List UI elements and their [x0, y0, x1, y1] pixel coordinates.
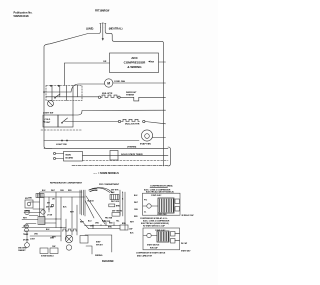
terminal box TB1 — [25, 198, 33, 208]
defrost thermostat S1 — [133, 97, 140, 101]
svg-text:MULLION HTR: MULLION HTR — [125, 124, 140, 126]
main harness verticals — [80, 190, 85, 216]
svg-text:ADC: ADC — [131, 56, 138, 60]
captions between boxes — [140, 217, 170, 228]
wire row y121 mullion — [65, 119, 166, 124]
wire diagonal harness 2 — [86, 196, 105, 224]
power cord plug P1 — [100, 23, 106, 28]
svg-text:FRZ COMPARTMENT: FRZ COMPARTMENT — [99, 183, 120, 186]
svg-text:BRN: BRN — [108, 226, 112, 228]
svg-text:SW: SW — [47, 202, 50, 204]
text rows under stack — [104, 217, 113, 223]
overload box 1 — [175, 207, 180, 212]
svg-text:WIRING: WIRING — [95, 255, 103, 257]
svg-text:(THERM): (THERM) — [127, 146, 137, 148]
wire to ADC box left — [65, 62, 110, 64]
text block lower middle — [96, 241, 104, 247]
svg-text:-··-· = SOME MODELS: -··-· = SOME MODELS — [93, 172, 119, 175]
mid cluster specks — [47, 198, 75, 213]
svg-text:LIGHT SW: LIGHT SW — [56, 144, 68, 146]
svg-text:MUL WTR: MUL WTR — [102, 93, 113, 95]
svg-text:AND CAPACITOR: AND CAPACITOR — [137, 255, 153, 258]
wire row y110 — [73, 110, 166, 115]
relay K1 (hatched) — [38, 217, 45, 225]
svg-text:DEF HTR: DEF HTR — [111, 189, 119, 191]
junction box on bundle — [36, 194, 44, 198]
tick marks row y222 — [93, 222, 114, 229]
ADC control box U1 — [110, 53, 159, 73]
svg-text:MAIN: MAIN — [66, 154, 72, 157]
wire row y148 — [44, 147, 168, 149]
door heater box — [110, 151, 118, 161]
svg-text:1: 1 — [122, 192, 123, 194]
wire row in assembly — [44, 91, 71, 93]
run capacitor box 1 — [175, 199, 180, 204]
text left of motor — [52, 236, 56, 247]
svg-text:ORG: ORG — [34, 234, 39, 236]
labels in box 1 — [144, 200, 148, 214]
text block bottom-left — [18, 248, 27, 253]
svg-text:RED: RED — [134, 216, 138, 218]
wire ADC box right lead — [159, 61, 166, 63]
ground prong arrow — [102, 28, 104, 41]
switch box U4 — [58, 115, 73, 127]
svg-text:5995210198: 5995210198 — [14, 14, 29, 18]
caption: elec conn box1 — [144, 189, 174, 193]
svg-text:CONT: CONT — [45, 122, 51, 124]
svg-text:WHT: WHT — [130, 221, 135, 223]
freezer connector box 1 — [110, 195, 119, 200]
svg-text:(LINE): (LINE) — [86, 28, 94, 31]
svg-text:DR SW: DR SW — [23, 240, 29, 242]
label lower-left — [23, 240, 29, 242]
junction dots — [48, 208, 66, 231]
svg-text:CAP: CAP — [52, 245, 56, 248]
wire: neutral conductor to right bus — [105, 28, 163, 167]
component right mid — [120, 225, 133, 230]
evaporator fan motor M2 — [141, 130, 165, 141]
svg-text:SW: SW — [25, 198, 28, 200]
defrost timer bracket — [168, 147, 171, 166]
svg-text:COND. FAN: COND. FAN — [114, 80, 126, 83]
svg-text:OVERLOAD: OVERLOAD — [157, 213, 167, 216]
freezer right column marks — [122, 192, 139, 225]
svg-text:W/ RELAY CAP: W/ RELAY CAP — [182, 214, 195, 217]
start relay circle box 1 — [143, 204, 158, 208]
svg-text:BLK: BLK — [63, 206, 67, 208]
svg-text:BLK: BLK — [130, 232, 134, 234]
svg-text:FRZ FAN: FRZ FAN — [105, 217, 113, 220]
mullion water heater R1 (meander) — [101, 95, 118, 97]
svg-text:START DEV: START DEV — [181, 250, 191, 253]
svg-text:ORG: ORG — [95, 222, 100, 224]
freezer lower small box — [112, 213, 120, 217]
svg-text:BLK: BLK — [134, 195, 138, 197]
svg-text:BLK: BLK — [111, 192, 115, 194]
svg-text:W/ START DEVICE & CAP: W/ START DEVICE & CAP — [143, 224, 166, 227]
condenser fan motor M1 — [71, 79, 166, 92]
wire verticals left cluster — [40, 192, 78, 241]
svg-text:PTC: PTC — [144, 200, 148, 202]
terminal mid cluster — [51, 204, 53, 206]
box right of motor — [80, 236, 88, 244]
label: DEFROST THERM — [126, 92, 137, 97]
captions below box 2 — [136, 252, 166, 258]
light bulb L1 — [48, 101, 54, 107]
wire verticals freezer — [120, 190, 125, 230]
main board terminals — [53, 152, 63, 159]
wire rows left cluster — [22, 202, 77, 236]
labels freezer stack — [111, 189, 124, 212]
bottom small box pair — [40, 248, 58, 254]
svg-text:REFRIGERATOR COMPARTMENT: REFRIGERATOR COMPARTMENT — [50, 181, 83, 184]
labels in left cluster — [23, 207, 55, 241]
svg-text:OR: OR — [103, 61, 107, 63]
svg-text:BLK: BLK — [42, 190, 46, 192]
label: WHITE with arrow — [148, 61, 155, 64]
cold control box U3 — [43, 115, 58, 127]
svg-text:M: M — [107, 82, 110, 86]
svg-text:COMPRESSOR W/ START DEVICE: COMPRESSOR W/ START DEVICE — [136, 252, 166, 255]
wire curve into freezer stack — [92, 188, 110, 193]
svg-text:THERM: THERM — [24, 211, 31, 213]
wire rows freezer mid — [85, 226, 121, 229]
lamp L4 — [41, 210, 45, 214]
svg-text:START DEVICE: START DEVICE — [147, 244, 160, 247]
L-wire lower middle — [85, 235, 112, 252]
svg-text:COMPRESSOR: COMPRESSOR — [124, 61, 147, 65]
start device box 2 — [171, 239, 176, 244]
svg-text:WHT: WHT — [23, 218, 28, 220]
door switch S3 — [55, 94, 61, 98]
motor run cap — [66, 245, 71, 250]
svg-text:TIMER: TIMER — [23, 234, 29, 236]
svg-text:CABINET: CABINET — [18, 249, 26, 252]
svg-text:HTR KIT: HTR KIT — [96, 244, 104, 246]
svg-text:BOARD: BOARD — [66, 157, 74, 160]
labels row across y221 — [80, 220, 135, 234]
wire row y155 — [83, 154, 169, 156]
svg-text:OL: OL — [144, 212, 146, 214]
svg-text:LT SW: LT SW — [47, 215, 53, 217]
lamp L3 — [25, 210, 29, 214]
wire diagonal harness 3 — [80, 219, 89, 229]
svg-text:DEFROST: DEFROST — [126, 92, 137, 94]
start relay circle box 2 — [144, 233, 158, 237]
wire dash-dot row y165 — [72, 165, 168, 167]
svg-text:SOME MODELS: SOME MODELS — [41, 255, 55, 257]
svg-text:WHT: WHT — [70, 211, 75, 213]
label right of box 2 — [181, 242, 191, 252]
svg-text:W/ CAP: W/ CAP — [181, 242, 188, 245]
svg-text:(NEUTRAL): (NEUTRAL) — [109, 28, 123, 31]
svg-text:BRN: BRN — [122, 223, 126, 225]
svg-text:MTR: MTR — [52, 236, 56, 238]
wire: inner bus vertical — [64, 63, 66, 86]
svg-text:COLD: COLD — [45, 119, 51, 121]
svg-text:THERM: THERM — [126, 95, 134, 97]
wire row y97 right — [140, 96, 166, 98]
svg-text:CAP: CAP — [129, 227, 133, 230]
svg-text:DEF SW: DEF SW — [46, 207, 53, 209]
compressor detail box 2 — [143, 228, 180, 250]
svg-text:BLU: BLU — [88, 220, 92, 222]
run capacitor box 2 — [171, 232, 176, 237]
compressor motor windings box 2 — [157, 231, 169, 242]
wire bundle top — [40, 192, 85, 197]
wire row y97 left — [46, 96, 98, 98]
svg-text:COMPRESSOR AREA: COMPRESSOR AREA — [150, 184, 173, 187]
svg-text:WHT ORG: WHT ORG — [111, 201, 120, 203]
switch pair — [25, 224, 29, 232]
svg-text:OR: OR — [52, 198, 55, 200]
wires in box 2 right — [175, 234, 180, 241]
wire dashed row y160 — [83, 160, 169, 162]
dashed row under boxes — [41, 129, 82, 131]
wire verticals in assembly — [52, 86, 78, 116]
svg-text:& WIRING: & WIRING — [127, 65, 142, 69]
heater terminal 2 — [118, 96, 120, 98]
compressor motor windings box 1 — [158, 198, 174, 213]
wire: line conductor to left bus — [44, 28, 100, 149]
svg-text:WHT: WHT — [80, 221, 85, 223]
svg-text:LIGHT SW: LIGHT SW — [43, 112, 53, 114]
svg-text:ORG: ORG — [60, 190, 65, 192]
wire diagonal harness — [85, 201, 94, 219]
svg-text:YEL: YEL — [116, 220, 119, 222]
wire curve 2 — [97, 188, 113, 193]
svg-text:WHT: WHT — [51, 190, 56, 192]
wire row y140 — [44, 140, 139, 142]
svg-text:ORG: ORG — [134, 209, 139, 211]
lamp bottom-left — [25, 243, 30, 248]
svg-text:RUN CAP: RUN CAP — [150, 246, 159, 249]
freezer connector box 2 — [109, 204, 115, 207]
svg-text:DIAGRAM: DIAGRAM — [102, 260, 113, 263]
svg-text:RED: RED — [109, 222, 113, 224]
label: publication number — [14, 11, 33, 18]
fan motor M3 (hatched) — [65, 235, 73, 243]
svg-text:FRT18NRGW: FRT18NRGW — [95, 10, 110, 12]
label: wire colors — [42, 190, 72, 192]
svg-text:EVAP FAN: EVAP FAN — [140, 143, 151, 146]
svg-text:RED: RED — [68, 190, 72, 192]
svg-text:WHT: WHT — [134, 202, 139, 204]
wire to bottom lamp — [26, 232, 28, 243]
refrigerator light assembly (dashed) — [46, 86, 82, 101]
junction dots on left bus — [43, 91, 45, 122]
compressor detail box 1 — [143, 193, 181, 215]
adaptive defrost control box U2 — [64, 152, 83, 162]
svg-text:Publication No.: Publication No. — [14, 11, 33, 15]
svg-text:GRN: GRN — [28, 198, 33, 200]
captions inside box2 bottom — [147, 244, 160, 250]
wire row y97 mid — [120, 96, 133, 98]
svg-text:WH: WH — [151, 62, 155, 64]
harness knot — [89, 189, 97, 192]
svg-text:COMP. ELEC: COMP. ELEC — [151, 195, 162, 197]
svg-text:EVAP: EVAP — [96, 241, 101, 244]
junction dots on assembly — [50, 85, 60, 87]
heater terminal — [98, 96, 100, 98]
corner wires bottom — [86, 246, 92, 254]
svg-text:CONT: CONT — [30, 239, 36, 241]
svg-text:BLK: BLK — [46, 229, 50, 231]
